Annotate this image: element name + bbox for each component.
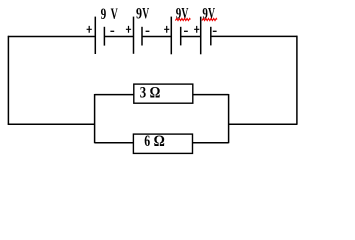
wire: top-left horizontal from left side to battery B1 (8, 35, 96, 37)
battery B2 short plate (-) (141, 27, 143, 46)
battery B1 long plate (+) (94, 17, 96, 54)
battery B1 short plate (-) (103, 27, 105, 46)
wire: top-right horizontal from battery B4 to right side (211, 35, 297, 37)
svg-text:Ω: Ω (150, 84, 161, 102)
svg-text:9: 9 (101, 6, 107, 23)
svg-text:6: 6 (144, 132, 150, 150)
svg-text:3: 3 (140, 84, 146, 102)
wire: right vertical side of outer loop (296, 36, 298, 125)
svg-text:V: V (111, 6, 119, 23)
label: + polarity of battery B3 (164, 26, 169, 33)
svg-text:V: V (142, 6, 149, 23)
node A: left junction bar of parallel branches (94, 94, 96, 143)
wire: node A to resistor R2 (95, 142, 134, 144)
wire: bottom-left horizontal from left side to node A (8, 123, 95, 125)
battery B3 short plate (-) (180, 27, 182, 46)
battery B3 long plate (+) (170, 17, 172, 55)
battery B2 long plate (+) (133, 17, 135, 54)
wire: left vertical side of outer loop (7, 36, 9, 125)
label: - polarity of battery B3 (184, 30, 188, 32)
wire: between battery B1 and battery B2 (104, 35, 133, 37)
wire: between battery B3 and battery B4 (181, 35, 201, 37)
wire: between battery B2 and battery B3 (142, 35, 171, 37)
label: + polarity of battery B2 (126, 26, 131, 33)
label: + polarity of battery B1 (87, 26, 92, 33)
spellcheck squiggle under 9V label of battery B3 (175, 18, 190, 20)
label: - polarity of battery B1 (110, 30, 114, 32)
battery B4 long plate (+) (200, 17, 202, 55)
wire: resistor R2 to node B (193, 142, 229, 144)
wire: resistor R1 to node B (193, 94, 229, 96)
wire: node A to resistor R1 (95, 94, 134, 96)
spellcheck squiggle under 9V label of battery B4 (202, 18, 217, 20)
resistor R1 box (134, 84, 193, 103)
node B: right junction bar of parallel branches (228, 94, 230, 143)
battery B4 short plate (-) (210, 27, 212, 46)
svg-text:Ω: Ω (154, 132, 165, 150)
label: - polarity of battery B2 (146, 30, 150, 32)
resistor R2 box (133, 134, 192, 153)
wire: bottom-right horizontal from right side to node B (229, 123, 298, 125)
label: - polarity of battery B4 (213, 30, 217, 32)
label: + polarity of battery B4 (194, 26, 199, 33)
